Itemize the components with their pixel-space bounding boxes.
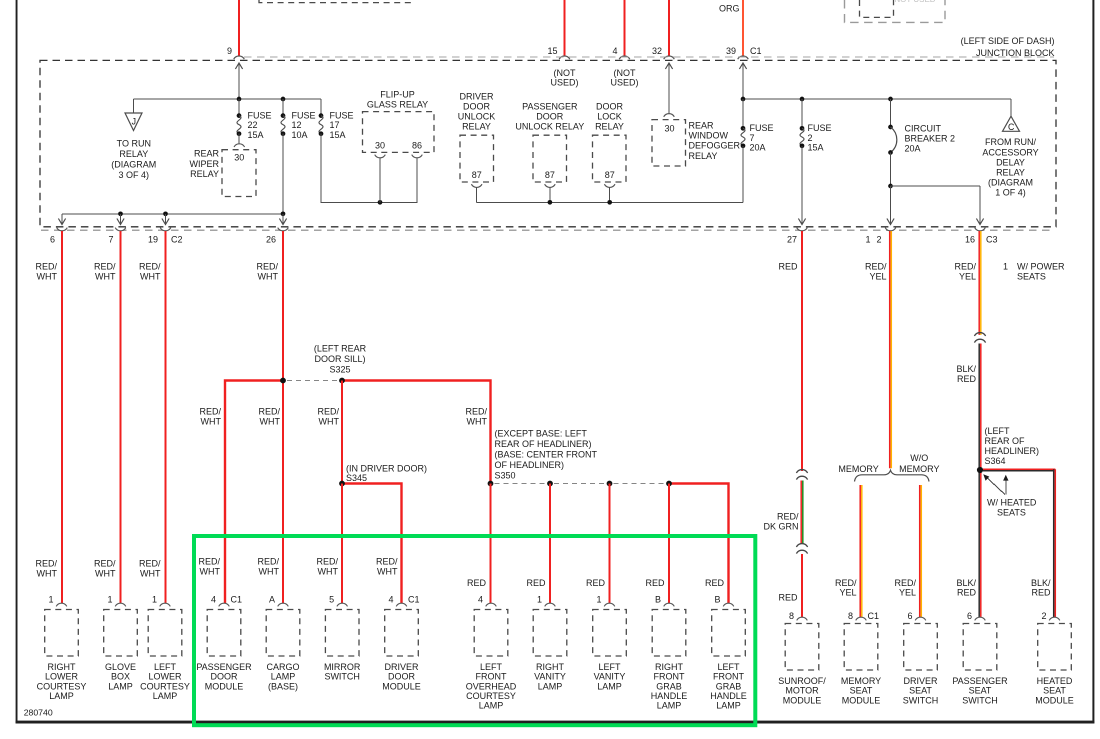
svg-text:DRIVER: DRIVER <box>459 91 494 101</box>
svg-text:FLIP-UP: FLIP-UP <box>380 89 415 99</box>
svg-text:DRIVER: DRIVER <box>903 676 938 686</box>
node A1 <box>237 97 242 102</box>
wire flip-up pin30 <box>379 157 381 202</box>
svg-text:CARGO: CARGO <box>266 662 299 672</box>
svg-text:(LEFT REAR: (LEFT REAR <box>314 344 367 354</box>
junction block outline (dashed) <box>40 60 1056 226</box>
wire RED/DK GRN sunroof <box>800 481 802 544</box>
svg-text:7: 7 <box>108 234 113 244</box>
splice S325 node b <box>339 378 345 384</box>
connector pin 9 bump <box>234 56 245 59</box>
splice S325 dashed link <box>287 380 338 382</box>
svg-text:1: 1 <box>152 595 157 605</box>
svg-text:RED/: RED/ <box>954 262 976 272</box>
svg-text:1: 1 <box>107 595 112 605</box>
svg-text:2: 2 <box>1041 611 1046 621</box>
svg-text:LEFT: LEFT <box>480 662 503 672</box>
arrow down to pin at x=283 <box>282 214 284 225</box>
svg-text:MODULE: MODULE <box>205 681 244 691</box>
wire RED/WHT pin6 down <box>61 231 63 604</box>
wire down to pin 2 (arrow) <box>890 186 892 225</box>
splice S364 node <box>977 467 983 473</box>
svg-text:MODULE: MODULE <box>382 681 421 691</box>
wire RED/WHT S345 to mirror switch <box>341 484 343 604</box>
svg-text:RED: RED <box>778 593 798 603</box>
svg-text:HANDLE: HANDLE <box>710 691 747 701</box>
svg-text:RIGHT: RIGHT <box>48 662 77 672</box>
svg-text:(DIAGRAM: (DIAGRAM <box>988 178 1033 188</box>
cut-off module box top-left <box>259 0 411 3</box>
svg-text:RED/: RED/ <box>94 559 116 569</box>
svg-text:RIGHT: RIGHT <box>655 662 684 672</box>
svg-text:DOOR: DOOR <box>596 101 624 111</box>
svg-text:DELAY: DELAY <box>996 157 1025 167</box>
svg-text:WHT: WHT <box>200 566 221 576</box>
wire fuse12 down to bus <box>282 134 284 214</box>
wire RED/YEL driver seat switch <box>919 485 921 618</box>
svg-text:RED/: RED/ <box>139 559 161 569</box>
svg-text:LEFT: LEFT <box>717 662 740 672</box>
module MIRROR SWITCH <box>337 603 348 606</box>
defogger relay pin bump <box>664 114 675 117</box>
svg-text:RED/: RED/ <box>94 262 116 272</box>
wire RED/WHT pin26 down to S325 and cargo lamp <box>282 231 284 604</box>
splice S350 node 2 <box>547 481 553 487</box>
svg-text:NOT USED: NOT USED <box>894 0 935 4</box>
svg-text:BLK/: BLK/ <box>1031 578 1051 588</box>
svg-text:FROM RUN/: FROM RUN/ <box>985 137 1036 147</box>
svg-text:LAMP: LAMP <box>108 681 133 691</box>
svg-text:MEMORY: MEMORY <box>841 676 881 686</box>
off-page symbol J (to run relay) <box>125 113 142 131</box>
wire RED/YEL pin2 down <box>889 231 891 468</box>
svg-text:WHT: WHT <box>258 271 279 281</box>
wire fuse7 upper <box>742 99 744 128</box>
svg-text:S345: S345 <box>346 473 367 483</box>
svg-text:BOX: BOX <box>111 672 130 682</box>
svg-text:DOOR: DOOR <box>536 111 564 121</box>
svg-text:(NOT: (NOT <box>614 68 636 78</box>
svg-text:BLK/: BLK/ <box>956 364 976 374</box>
svg-text:4: 4 <box>211 595 216 605</box>
svg-text:RED: RED <box>705 578 725 588</box>
svg-text:WHT: WHT <box>201 416 222 426</box>
svg-text:WHT: WHT <box>467 416 488 426</box>
svg-text:DOOR SILL): DOOR SILL) <box>314 354 365 364</box>
svg-text:15: 15 <box>547 46 557 56</box>
page border frame left <box>16 0 18 723</box>
svg-text:LAMP: LAMP <box>716 701 741 711</box>
svg-text:S325: S325 <box>329 364 350 374</box>
jb bottom pin 26 bump <box>278 228 289 231</box>
label W/ HEATED SEATS with arrows <box>986 477 1005 495</box>
svg-text:WHT: WHT <box>140 271 161 281</box>
svg-text:B: B <box>655 595 661 605</box>
node bus pin19 <box>163 211 168 216</box>
svg-text:UNLOCK: UNLOCK <box>458 111 496 121</box>
svg-text:C1: C1 <box>868 611 880 621</box>
svg-text:GLOVE: GLOVE <box>105 662 136 672</box>
svg-text:RED/: RED/ <box>198 557 220 567</box>
wire S325 horizontal right segment <box>342 381 491 484</box>
svg-text:SEAT: SEAT <box>969 686 992 696</box>
svg-text:1: 1 <box>1003 262 1008 272</box>
svg-text:C1: C1 <box>231 595 243 605</box>
splice S350 node 3 <box>607 481 613 487</box>
svg-text:LAMP: LAMP <box>479 701 504 711</box>
svg-text:RED/: RED/ <box>35 262 57 272</box>
module CARGO LAMP (BASE) <box>278 603 289 606</box>
wire RED/WHT S325 to S345 <box>341 381 343 484</box>
svg-text:USED): USED) <box>550 78 578 88</box>
node bus B2 <box>607 200 612 205</box>
bus line A horizontal y=99 <box>134 98 322 100</box>
svg-text:87: 87 <box>605 170 615 180</box>
svg-text:26: 26 <box>266 234 276 244</box>
green highlight box <box>194 536 755 725</box>
module LEFT VANITY LAMP <box>604 603 615 606</box>
wire pin4 top (RED) <box>623 0 625 56</box>
svg-text:22: 22 <box>248 120 258 130</box>
connector pin 39 bump <box>738 56 749 59</box>
svg-text:32: 32 <box>652 46 662 56</box>
splice S325 node a <box>280 378 286 384</box>
svg-text:RED/: RED/ <box>35 559 57 569</box>
wire to J symbol <box>133 99 135 113</box>
svg-text:S364: S364 <box>985 456 1006 466</box>
svg-text:REAR OF HEADLINER): REAR OF HEADLINER) <box>495 439 592 449</box>
svg-text:HEADLINER): HEADLINER) <box>985 446 1040 456</box>
svg-text:RELAY: RELAY <box>595 121 624 131</box>
svg-text:6: 6 <box>50 234 55 244</box>
svg-text:15A: 15A <box>330 130 346 140</box>
off-page symbol C (from run/accessory delay relay) <box>1003 116 1020 131</box>
fuse F7 20A <box>741 126 746 131</box>
wire from pin39 into block (arrow up) <box>742 63 744 100</box>
svg-text:REAR: REAR <box>689 120 715 130</box>
svg-text:FRONT: FRONT <box>476 672 507 682</box>
svg-text:3 OF 4): 3 OF 4) <box>119 170 150 180</box>
svg-text:(EXCEPT BASE: LEFT: (EXCEPT BASE: LEFT <box>495 429 588 439</box>
node bus pin26 <box>281 211 286 216</box>
svg-text:RELAY: RELAY <box>190 169 219 179</box>
rear window defogger relay feed wire (arrow up to pin32) <box>668 63 670 115</box>
svg-text:RED/: RED/ <box>258 407 280 417</box>
wire RED/WHT pin7 down <box>119 231 121 604</box>
svg-text:RED: RED <box>586 578 606 588</box>
module HEATED SEAT MODULE <box>1049 617 1060 620</box>
svg-text:GRAB: GRAB <box>656 681 682 691</box>
wire S325 horizontal left segment <box>225 381 284 604</box>
svg-text:SWITCH: SWITCH <box>903 695 939 705</box>
node bus pin7 <box>118 211 123 216</box>
svg-text:1 OF 4): 1 OF 4) <box>995 188 1026 198</box>
fuse F12 10A <box>281 113 286 118</box>
svg-text:DOOR: DOOR <box>388 672 416 682</box>
module PASSENGER DOOR MODULE <box>219 603 230 606</box>
svg-text:4: 4 <box>612 46 617 56</box>
svg-text:LEFT: LEFT <box>154 662 177 672</box>
svg-text:(BASE): (BASE) <box>268 681 298 691</box>
svg-text:BREAKER 2: BREAKER 2 <box>905 134 956 144</box>
module PASSENGER SEAT SWITCH <box>975 617 986 620</box>
node bus B1 <box>548 200 553 205</box>
fuse F17 15A <box>319 113 324 118</box>
wire 87 to bus <box>549 187 551 202</box>
connector pin 15 bump <box>559 56 570 59</box>
svg-text:REAR: REAR <box>194 148 220 158</box>
wire fuse7 down to door relay bus <box>742 146 744 203</box>
svg-text:15A: 15A <box>248 130 264 140</box>
svg-text:WHT: WHT <box>37 271 58 281</box>
svg-text:DK GRN: DK GRN <box>763 521 798 531</box>
svg-text:USED): USED) <box>610 78 638 88</box>
flip-up pin 30 bump <box>375 155 386 158</box>
svg-text:VANITY: VANITY <box>594 672 626 682</box>
svg-text:8: 8 <box>789 611 794 621</box>
wire S350 right segment to left front grab handle <box>669 484 729 604</box>
rear wiper relay pin bump <box>234 144 245 147</box>
svg-text:12: 12 <box>292 120 302 130</box>
svg-text:LAMP: LAMP <box>153 691 178 701</box>
svg-text:(LEFT: (LEFT <box>985 426 1011 436</box>
svg-text:COURTESY: COURTESY <box>140 681 190 691</box>
page border frame right <box>1092 0 1094 723</box>
svg-text:WHT: WHT <box>377 566 398 576</box>
wire RED right vanity <box>549 484 551 604</box>
svg-text:C1: C1 <box>750 46 762 56</box>
svg-text:86: 86 <box>412 140 422 150</box>
svg-text:LOCK: LOCK <box>597 111 622 121</box>
svg-text:PASSENGER: PASSENGER <box>522 101 578 111</box>
svg-text:6: 6 <box>967 611 972 621</box>
svg-text:MEMORY: MEMORY <box>838 464 878 474</box>
svg-text:MODULE: MODULE <box>783 695 822 705</box>
in-line connector (sunroof upper) <box>796 470 807 473</box>
svg-text:DEFOGGER: DEFOGGER <box>689 141 741 151</box>
svg-text:J: J <box>132 116 136 126</box>
wire fuse2 upper <box>801 99 803 128</box>
svg-text:OVERHEAD: OVERHEAD <box>466 681 517 691</box>
svg-text:JUNCTION BLOCK: JUNCTION BLOCK <box>976 48 1055 58</box>
wire from pin9 into block (arrow up) <box>238 63 240 100</box>
wire pin15 top (RED) <box>563 0 565 56</box>
module RIGHT FRONT GRAB HANDLE LAMP <box>664 603 675 606</box>
splice S350 node 4 <box>666 481 672 487</box>
svg-text:CIRCUIT: CIRCUIT <box>905 124 942 134</box>
svg-text:1: 1 <box>865 234 870 244</box>
wire RED right grab handle <box>668 484 670 604</box>
svg-text:TO RUN: TO RUN <box>117 139 151 149</box>
node B breaker <box>888 97 893 102</box>
svg-text:RELAY: RELAY <box>996 168 1025 178</box>
svg-text:19: 19 <box>148 234 158 244</box>
splice S345 node <box>339 481 345 487</box>
svg-text:SEATS: SEATS <box>997 508 1026 518</box>
svg-text:WHT: WHT <box>260 416 281 426</box>
svg-text:RED/: RED/ <box>256 262 278 272</box>
bus line B horizontal y=99 <box>743 98 1011 100</box>
wire BLK/RED down to S364 and passenger seat switch <box>978 344 980 618</box>
svg-text:YEL: YEL <box>839 588 856 598</box>
svg-text:1: 1 <box>48 595 53 605</box>
node breaker split <box>888 184 893 189</box>
wire RED sunroof lower <box>801 554 803 618</box>
svg-text:DRIVER: DRIVER <box>384 662 419 672</box>
rear window defogger relay box <box>652 120 686 166</box>
svg-text:ORG: ORG <box>719 3 740 13</box>
node flip-up pin30 junction <box>378 200 383 205</box>
wire to C symbol <box>1010 99 1012 116</box>
svg-text:VANITY: VANITY <box>534 672 566 682</box>
svg-text:W/ HEATED: W/ HEATED <box>987 498 1037 508</box>
svg-text:YEL: YEL <box>899 588 916 598</box>
svg-text:RED: RED <box>645 578 665 588</box>
svg-text:(BASE: CENTER FRONT: (BASE: CENTER FRONT <box>495 449 598 459</box>
svg-text:YEL: YEL <box>959 271 976 281</box>
jb bottom pin 16 bump <box>975 228 986 231</box>
svg-text:(DIAGRAM: (DIAGRAM <box>111 160 156 170</box>
module LEFT FRONT GRAB HANDLE LAMP <box>723 603 734 606</box>
svg-text:HEATED: HEATED <box>1037 676 1073 686</box>
svg-text:HANDLE: HANDLE <box>651 691 688 701</box>
svg-text:RED/: RED/ <box>317 407 339 417</box>
module MEMORY SEAT MODULE <box>856 617 867 620</box>
connector C1 gray dashed line (top) <box>244 56 1054 58</box>
svg-text:RED/: RED/ <box>835 578 857 588</box>
wire breaker upper <box>890 99 892 127</box>
module RIGHT LOWER COURTESY LAMP <box>56 603 67 606</box>
svg-text:RED/: RED/ <box>865 262 887 272</box>
wire fuse22 drop <box>238 99 240 116</box>
svg-text:C2: C2 <box>171 234 183 244</box>
svg-text:FUSE: FUSE <box>292 110 316 120</box>
svg-text:S350: S350 <box>495 470 516 480</box>
node B fuse2 <box>800 97 805 102</box>
svg-text:BLK/: BLK/ <box>956 578 976 588</box>
svg-text:SWITCH: SWITCH <box>962 695 998 705</box>
svg-text:RED: RED <box>1031 588 1051 598</box>
svg-text:30: 30 <box>375 140 385 150</box>
wire pin32 top (RED) <box>668 0 670 56</box>
wire fuse2 down to pin27 (arrow) <box>801 146 803 225</box>
svg-text:ACCESSORY: ACCESSORY <box>982 147 1038 157</box>
wire fuse17 down and right to flip-up glass relay <box>321 134 417 203</box>
wire pin9 top (RED) <box>238 0 240 56</box>
jb bottom pin 27 bump <box>797 228 808 231</box>
svg-text:LAMP: LAMP <box>538 681 563 691</box>
wire RED/YEL pin16 down <box>978 231 980 335</box>
svg-text:2: 2 <box>876 234 881 244</box>
splice S350 dashed link 1 <box>495 483 547 485</box>
cut-off inner box top-right <box>860 0 894 17</box>
svg-text:MODULE: MODULE <box>1035 695 1074 705</box>
svg-text:5: 5 <box>329 595 334 605</box>
wire RED/WHT pin19 down <box>164 231 166 604</box>
svg-text:DOOR: DOOR <box>211 672 239 682</box>
svg-text:WHT: WHT <box>259 566 280 576</box>
svg-text:MODULE: MODULE <box>842 695 881 705</box>
svg-text:RED: RED <box>526 578 546 588</box>
wire split horizontal <box>891 185 981 187</box>
door relay bus y=202.3 <box>477 201 743 203</box>
svg-text:WINDOW: WINDOW <box>689 131 729 141</box>
node A2 <box>281 97 286 102</box>
svg-text:RED/: RED/ <box>465 407 487 417</box>
svg-text:1: 1 <box>537 595 542 605</box>
driver door unlock pin bump <box>471 184 482 187</box>
svg-text:RED: RED <box>778 262 798 272</box>
svg-text:FUSE: FUSE <box>750 123 774 133</box>
svg-text:RED: RED <box>957 374 977 384</box>
svg-text:WHT: WHT <box>95 568 116 578</box>
brace memory / w-o memory <box>855 470 930 481</box>
connector pin 4 bump <box>619 56 630 59</box>
svg-text:2: 2 <box>808 133 813 143</box>
svg-text:FUSE: FUSE <box>330 110 354 120</box>
wire down to pin 16 (arrow) <box>979 186 981 225</box>
svg-text:YEL: YEL <box>869 271 886 281</box>
svg-text:27: 27 <box>787 234 797 244</box>
svg-text:RED: RED <box>957 588 977 598</box>
svg-text:WHT: WHT <box>37 568 58 578</box>
svg-text:4: 4 <box>478 595 483 605</box>
svg-text:RED/: RED/ <box>376 557 398 567</box>
svg-text:WIPER: WIPER <box>189 159 219 169</box>
svg-text:LOWER: LOWER <box>45 672 79 682</box>
left bottom bus y=213.8 <box>62 213 283 215</box>
svg-text:RIGHT: RIGHT <box>536 662 565 672</box>
svg-text:87: 87 <box>472 170 482 180</box>
wire corner to fuse17 <box>320 99 322 116</box>
svg-text:9: 9 <box>227 46 232 56</box>
module SUNROOF/MOTOR MODULE <box>797 617 808 620</box>
connector pin 32 bump <box>664 56 675 59</box>
module DRIVER DOOR MODULE <box>396 603 407 606</box>
svg-text:MEMORY: MEMORY <box>899 464 939 474</box>
svg-text:WHT: WHT <box>95 271 116 281</box>
svg-text:(LEFT SIDE OF DASH): (LEFT SIDE OF DASH) <box>961 36 1055 46</box>
wire 87 to bus <box>476 187 478 202</box>
svg-text:LAMP: LAMP <box>49 691 74 701</box>
in-line connector (sunroof lower) <box>796 544 807 547</box>
svg-text:10A: 10A <box>292 130 308 140</box>
door lock relay box <box>593 135 627 182</box>
svg-text:7: 7 <box>750 133 755 143</box>
flip-up glass relay box <box>363 112 435 153</box>
wire RED pin27 down (sunroof) <box>801 231 803 471</box>
svg-text:(NOT: (NOT <box>554 68 576 78</box>
svg-text:SEAT: SEAT <box>1043 686 1066 696</box>
svg-text:C: C <box>1008 122 1015 132</box>
wire RED/YEL memory seat <box>859 485 861 618</box>
svg-text:FRONT: FRONT <box>654 672 685 682</box>
wire S345 branch to driver door module <box>342 484 402 604</box>
svg-text:OF HEADLINER): OF HEADLINER) <box>495 460 565 470</box>
svg-text:RELAY: RELAY <box>119 149 148 159</box>
svg-text:LAMP: LAMP <box>657 701 682 711</box>
svg-text:RELAY: RELAY <box>689 151 718 161</box>
module LEFT FRONT OVERHEAD COURTESY LAMP <box>486 603 497 606</box>
jb bottom pin 7 bump <box>115 228 126 231</box>
svg-text:17: 17 <box>330 120 340 130</box>
svg-text:SWITCH: SWITCH <box>324 672 360 682</box>
splice S350 node 1 <box>488 481 494 487</box>
wire fuse22 to rear wiper relay <box>238 134 240 145</box>
page border frame bottom <box>16 721 1095 724</box>
wire BLK/RED horizontal to heated seat module <box>983 468 1055 470</box>
wire breaker down <box>890 153 892 187</box>
